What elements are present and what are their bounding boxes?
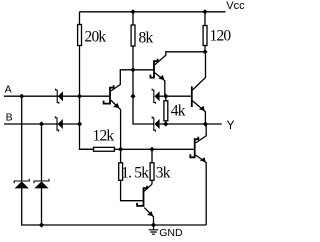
- wire 12k left lead: [80, 148, 94, 150]
- transistor Q5 collector: [196, 124, 207, 143]
- transistor Q3 collector: [144, 184, 152, 191]
- wire B clamp to bottom rail: [41, 188, 43, 225]
- transistor Q2 emitter arrow: [158, 75, 164, 80]
- wire 20k bottom to node P: [79, 46, 81, 97]
- diode D4 bar (schottky) row1: [152, 89, 155, 104]
- wire 3k top lead: [151, 149, 153, 163]
- wire 4k top lead: [165, 96, 167, 101]
- svg-text:Vcc: Vcc: [226, 0, 245, 12]
- junction dot 120 top: [202, 9, 207, 14]
- wire D5 to Y node: [160, 123, 206, 125]
- junction dot 12k node: [118, 147, 123, 152]
- wire node P down to 12k corner: [80, 124, 94, 149]
- junction dot 3k node: [149, 147, 154, 152]
- junction dot 8k top: [130, 9, 135, 14]
- svg-text:4k: 4k: [171, 103, 186, 120]
- diode D3B clamp triangle: [34, 181, 48, 188]
- diode D1B bar (schottky): [55, 116, 58, 131]
- svg-text:GND: GND: [159, 227, 183, 239]
- transistor Q5 emitter arrow: [200, 157, 206, 162]
- resistor R4 120: [203, 26, 207, 46]
- wire 1.5k bottom to Q3 base: [121, 180, 143, 200]
- transistor Q2 base lead: [133, 69, 153, 71]
- transistor Q3 emitter: [144, 208, 153, 225]
- svg-text:B: B: [6, 112, 13, 124]
- svg-text:8k: 8k: [139, 30, 154, 47]
- resistor R6 4k: [164, 101, 168, 121]
- diode D1A triangle: [58, 91, 63, 101]
- transistor Q2 base bar (schottky): [150, 59, 157, 78]
- wire 120 bottom lead: [204, 46, 206, 52]
- wire 3k node to Q5 base: [152, 148, 194, 150]
- transistor Q5 base bar (schottky): [190, 137, 198, 158]
- wire 8k bottom: [132, 46, 134, 70]
- junction dot B clamp: [39, 121, 44, 126]
- wire input B line: [4, 123, 80, 125]
- svg-text:3k: 3k: [156, 165, 171, 182]
- transistor Q3 base bar (schottky): [137, 186, 147, 206]
- wire Vcc top rail: [80, 11, 226, 13]
- diode D5 triangle: [155, 119, 160, 129]
- wire 12k node to 3k node: [121, 148, 152, 150]
- resistor R3 12k: [94, 147, 115, 151]
- junction dot GND: [151, 222, 156, 227]
- wire B clamp vertical: [41, 124, 43, 181]
- transistor Q4 emitter: [193, 101, 206, 124]
- junction dot Y node: [203, 121, 208, 126]
- svg-text:A: A: [5, 84, 12, 96]
- svg-text:20k: 20k: [85, 29, 107, 46]
- diode D3A clamp triangle: [15, 181, 29, 188]
- resistor R2 8k: [131, 25, 135, 46]
- wire node E2 to Q4 base: [166, 95, 191, 97]
- wire 120 top lead: [204, 12, 206, 26]
- wire 4k bottom lead: [165, 121, 167, 124]
- transistor Q4 base bar: [191, 86, 193, 107]
- resistor R7 3k: [150, 163, 154, 181]
- wire node C1 to node D: [132, 70, 134, 96]
- svg-text:12k: 12k: [93, 128, 115, 145]
- resistor R1 20k: [78, 25, 82, 46]
- wire 20k top lead: [79, 12, 81, 25]
- wire D4 to node E2: [160, 95, 166, 97]
- transistor Q5 emitter: [196, 155, 207, 225]
- diode D1B triangle: [58, 119, 63, 129]
- junction dot 4k bottom: [163, 121, 168, 126]
- wire bottom rail: [42, 224, 207, 226]
- diode D3A clamp bar (schottky): [14, 179, 29, 184]
- svg-text:1. 5k: 1. 5k: [121, 165, 149, 182]
- wire 1.5k top lead: [120, 149, 122, 163]
- wire node P vertical: [79, 96, 81, 124]
- junction dot node D: [130, 94, 135, 99]
- transistor Q4 emitter arrow: [199, 106, 205, 111]
- junction dot node C1: [130, 67, 135, 72]
- diode D5 bar (schottky) row2: [152, 116, 155, 131]
- wire A clamp vertical: [21, 96, 23, 181]
- transistor Q4 collector: [193, 52, 206, 90]
- node P dot A: [77, 94, 82, 99]
- diode D3B clamp bar (schottky): [34, 179, 49, 184]
- transistor Q1 emitter: [111, 100, 121, 149]
- ground symbol: [149, 225, 159, 234]
- svg-text:120: 120: [210, 28, 232, 45]
- diode D1A bar (schottky): [56, 89, 59, 104]
- diode D4 triangle: [155, 91, 160, 101]
- svg-text:Y: Y: [227, 118, 235, 132]
- resistor R5 1.5k: [119, 163, 123, 181]
- wire 3k bottom lead: [151, 180, 153, 184]
- junction dot node C2: [202, 49, 207, 54]
- transistor Q3 emitter arrow: [147, 211, 153, 216]
- transistor Q2 emitter: [155, 73, 165, 96]
- junction dot node E2: [163, 94, 168, 99]
- wire 8k top lead: [132, 12, 134, 25]
- junction dot A clamp: [19, 94, 24, 99]
- transistor Q2 collector: [155, 52, 205, 65]
- node P dot B: [77, 121, 82, 126]
- wire 12k right lead: [114, 148, 120, 150]
- wire input A line: [4, 95, 109, 97]
- wire node D down corner to D2 row: [133, 96, 154, 124]
- transistor Q1 emitter arrow: [113, 103, 119, 108]
- junction dot bottom rail B: [39, 222, 44, 227]
- wire output Y: [205, 123, 221, 125]
- transistor Q1 collector: [111, 70, 133, 91]
- wire A clamp to bottom rail: [22, 188, 42, 225]
- transistor Q1 base bar (schottky): [104, 85, 114, 103]
